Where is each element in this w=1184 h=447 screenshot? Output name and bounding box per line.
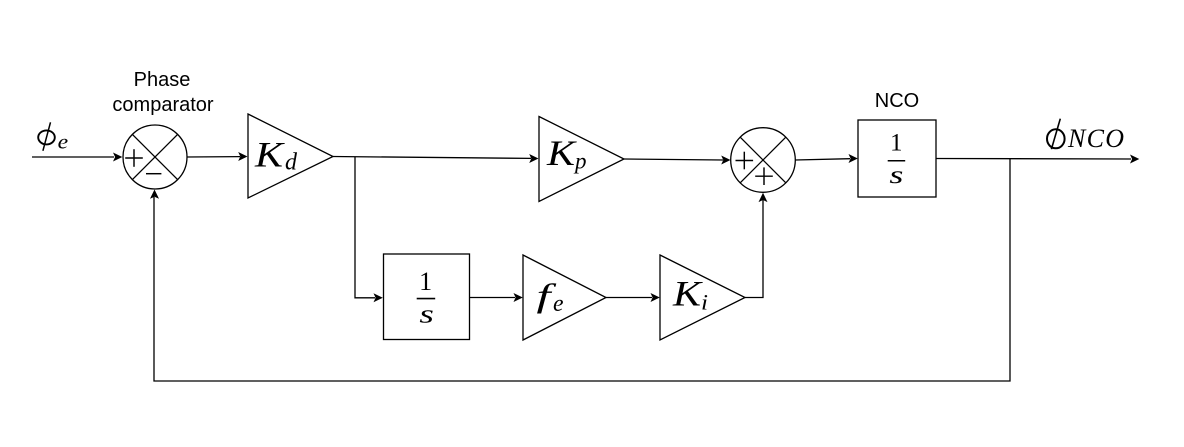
wire S1 to Kd	[187, 152, 248, 161]
gain block Kp	[539, 117, 624, 202]
wire S2 to NCO	[795, 154, 858, 163]
svg-text:Phase: Phase	[134, 69, 191, 91]
node phi_NCO output label	[1047, 119, 1125, 153]
svg-text:e: e	[58, 130, 69, 154]
gain block Kd	[248, 114, 333, 198]
svg-text:p: p	[573, 149, 587, 174]
gain block Ki	[660, 255, 745, 340]
svg-text:d: d	[285, 150, 298, 176]
block NCO integrator 1/s	[858, 120, 936, 197]
svg-text:K: K	[546, 133, 577, 173]
node phi_e input label	[38, 122, 68, 153]
minus sign on S1	[146, 173, 161, 175]
svg-text:s: s	[419, 299, 434, 328]
svg-text:comparator: comparator	[112, 94, 213, 116]
summing junction S1 phase comparator	[123, 125, 187, 189]
svg-text:K: K	[672, 274, 703, 314]
wire Kd branch down to integrator	[355, 157, 383, 302]
svg-text:1: 1	[890, 130, 903, 157]
wire fe to Ki	[606, 293, 660, 302]
wire NCO to output	[936, 155, 1139, 164]
plus sign left on S2	[736, 152, 754, 170]
wire Ki up to S2	[745, 193, 768, 298]
svg-text:e: e	[553, 291, 564, 317]
svg-text:NCO: NCO	[1067, 124, 1125, 153]
plus sign bottom on S2	[755, 167, 773, 185]
wire integrator to fe	[470, 293, 523, 302]
wire input to phase comparator	[32, 153, 122, 162]
wire Kd to Kp	[333, 154, 539, 163]
svg-text:NCO: NCO	[875, 90, 919, 112]
integrator block 1/s loop filter	[384, 254, 470, 340]
wire Kp to S2	[624, 156, 731, 165]
wire feedback from output to S1	[150, 159, 1010, 381]
gain block fe	[523, 255, 606, 340]
summing junction S2	[731, 128, 796, 193]
svg-text:1: 1	[419, 267, 432, 296]
plus sign on S1	[125, 149, 143, 167]
svg-text:K: K	[254, 135, 285, 175]
svg-text:i: i	[701, 290, 708, 315]
svg-text:s: s	[889, 162, 903, 189]
